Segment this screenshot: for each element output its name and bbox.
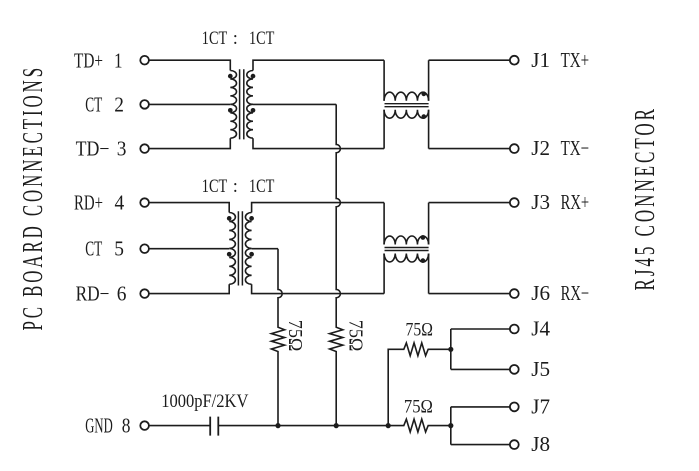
svg-text:TX−: TX− xyxy=(561,136,590,160)
wire resistor R3 branch xyxy=(388,343,451,426)
svg-text:J6: J6 xyxy=(531,281,550,305)
wire T1 secondary center tap to node xyxy=(253,103,336,105)
svg-text:6: 6 xyxy=(117,282,127,306)
wire choke CM2 to J6 xyxy=(429,293,510,295)
capacitor C1 plates xyxy=(210,417,218,436)
svg-text:PC BOARD CONNECTIONS: PC BOARD CONNECTIONS xyxy=(17,65,49,331)
transformer T2 secondary winding xyxy=(245,213,251,285)
wire TD- to T1 primary bottom xyxy=(149,138,230,148)
pin J4 terminal circle xyxy=(510,325,519,334)
svg-text:J5: J5 xyxy=(531,357,550,381)
junction node dots on ground bus xyxy=(275,423,280,428)
svg-text:1CT: 1CT xyxy=(249,29,274,49)
svg-text:75Ω: 75Ω xyxy=(344,320,366,352)
wire RD- to T2 primary bottom xyxy=(149,284,229,293)
svg-text:CT: CT xyxy=(85,237,102,261)
choke CM2 right leads xyxy=(428,203,430,294)
wire choke CM1 to J2 xyxy=(429,148,510,150)
pin J8 terminal circle xyxy=(510,440,519,449)
svg-text:TD−: TD− xyxy=(76,137,110,161)
choke CM2 left leads xyxy=(383,203,385,294)
svg-text:1CT: 1CT xyxy=(202,177,227,197)
svg-text:1CT: 1CT xyxy=(202,29,227,49)
pin CT 5 terminal circle xyxy=(140,244,149,253)
wire T2 secondary bottom to choke CM2 bottom xyxy=(252,284,385,293)
transformer T2 core xyxy=(238,211,242,285)
pin TD- 3 terminal circle xyxy=(140,144,149,153)
wire node B vertical from T2 CT with hop and resistor R1 xyxy=(271,249,284,426)
wire T2 secondary top to choke CM2 xyxy=(252,203,385,213)
wire CT5 to T2 primary center tap xyxy=(149,248,229,250)
svg-text:TD+: TD+ xyxy=(74,48,103,72)
svg-text:RD−: RD− xyxy=(76,282,110,306)
pin J3 terminal circle xyxy=(510,198,519,207)
svg-text:4: 4 xyxy=(115,191,125,215)
svg-text:J8: J8 xyxy=(531,432,550,456)
wire choke CM1 to J1 xyxy=(429,59,510,61)
choke CM2 top winding xyxy=(384,236,428,245)
choke CM1 bottom winding xyxy=(384,110,428,119)
svg-text:1CT: 1CT xyxy=(249,177,274,197)
wire RD+ to T2 primary top xyxy=(149,203,229,213)
pin J5 terminal circle xyxy=(510,365,519,374)
svg-text:RJ45 CONNECTOR: RJ45 CONNECTOR xyxy=(629,106,661,291)
label T2 ratio 1CT : 1CT xyxy=(202,177,275,197)
pin J2 terminal circle xyxy=(510,144,519,153)
svg-text:RX+: RX+ xyxy=(561,190,590,214)
wire GND to capacitor C1 xyxy=(149,425,210,427)
CM2 phase dots xyxy=(421,235,426,240)
svg-text:2: 2 xyxy=(114,92,124,116)
pin CT 2 terminal circle xyxy=(140,100,149,109)
svg-text:J4: J4 xyxy=(531,317,550,341)
svg-text:RX−: RX− xyxy=(561,281,590,305)
pin J1 terminal circle xyxy=(510,56,519,65)
pin RD+ 4 terminal circle xyxy=(140,198,149,207)
svg-text:RD+: RD+ xyxy=(74,191,103,215)
svg-text:J3: J3 xyxy=(531,190,550,214)
wire choke CM2 to J3 xyxy=(429,202,510,204)
svg-text:J2: J2 xyxy=(531,136,550,160)
pin RD- 6 terminal circle xyxy=(140,289,149,298)
svg-text:J7: J7 xyxy=(531,395,550,419)
svg-text:CT: CT xyxy=(85,92,102,116)
svg-text:GND: GND xyxy=(85,413,112,437)
junction node dot R3 output xyxy=(448,347,453,352)
choke CM1 right leads xyxy=(428,60,430,148)
wire T2 secondary center tap to node xyxy=(252,248,278,250)
pin J7 terminal circle xyxy=(510,403,519,412)
transformer T2 primary winding xyxy=(229,213,235,285)
svg-text:TX+: TX+ xyxy=(561,48,590,72)
transformer T1 secondary winding xyxy=(247,71,253,139)
wire T1 secondary top to choke CM1 xyxy=(253,60,384,70)
transformer T1 primary winding xyxy=(230,71,236,139)
wire J7/J8 bracket xyxy=(451,407,510,445)
svg-text:5: 5 xyxy=(114,237,124,261)
svg-text:1: 1 xyxy=(114,48,123,72)
choke CM2 core xyxy=(385,248,429,251)
pin J6 terminal circle xyxy=(510,289,519,298)
CM1 phase dots xyxy=(421,92,426,97)
choke CM1 core xyxy=(385,104,429,107)
wire ground bus with resistor R4 xyxy=(218,419,450,432)
transformer T1 core xyxy=(240,69,244,139)
label T1 ratio 1CT : 1CT xyxy=(202,29,275,49)
svg-text:3: 3 xyxy=(117,137,127,161)
wire node A vertical from T1 CT with hops and resistor R2 xyxy=(330,104,343,425)
T1 phase dots xyxy=(228,74,233,79)
T2 phase dots xyxy=(227,216,232,221)
wire T1 secondary bottom to choke CM1 bottom xyxy=(253,138,384,148)
svg-text:75Ω: 75Ω xyxy=(406,320,433,341)
wire CT2 to T1 primary center tap xyxy=(149,103,230,105)
svg-text:J1: J1 xyxy=(531,48,550,72)
choke CM1 top winding xyxy=(384,92,428,101)
svg-text:1000pF/2KV: 1000pF/2KV xyxy=(161,391,248,412)
svg-text:75Ω: 75Ω xyxy=(404,397,433,418)
svg-text::: : xyxy=(233,29,238,49)
pin GND 8 terminal circle xyxy=(140,421,149,430)
pin TD+ 1 terminal circle xyxy=(140,56,149,65)
svg-text::: : xyxy=(233,177,238,197)
choke CM1 left leads xyxy=(383,60,385,148)
svg-text:75Ω: 75Ω xyxy=(284,320,306,352)
wire J4/J5 bracket xyxy=(451,329,510,369)
choke CM2 bottom winding xyxy=(384,254,428,263)
wire TD+ to T1 primary top xyxy=(149,60,230,70)
svg-text:8: 8 xyxy=(122,413,131,437)
